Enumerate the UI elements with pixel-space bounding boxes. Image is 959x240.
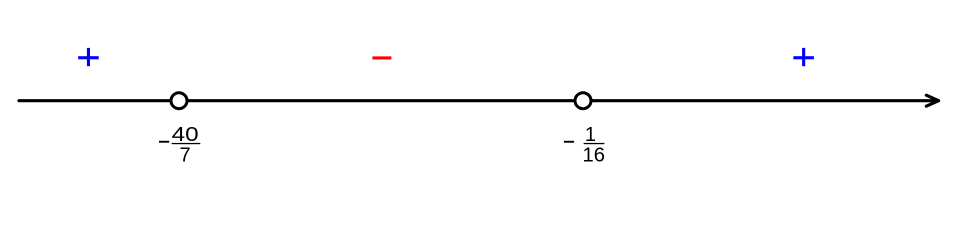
arrowhead at right end bbox=[926, 95, 938, 106]
node A: open circle at -40/7 bbox=[171, 93, 187, 109]
sign + (left region, blue) bbox=[78, 48, 99, 66]
sign - (middle region, red) bbox=[372, 56, 391, 59]
svg-text:16: 16 bbox=[583, 144, 606, 166]
label -1/16 bbox=[564, 124, 605, 166]
node B: open circle at -1/16 bbox=[575, 93, 591, 109]
sign + (right region, blue) bbox=[793, 48, 814, 66]
svg-text:7: 7 bbox=[179, 144, 190, 166]
wire: number line shaft bbox=[19, 99, 938, 102]
label -40/7 bbox=[159, 124, 200, 166]
